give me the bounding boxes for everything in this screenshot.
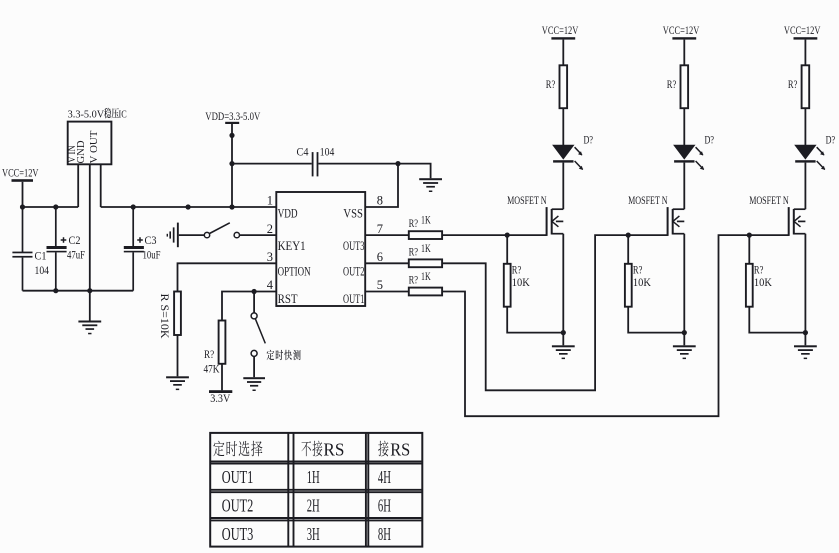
junction on VDD rail	[186, 204, 191, 209]
svg-text:OUT3: OUT3	[343, 238, 365, 253]
svg-text:R?: R?	[204, 347, 214, 361]
svg-text:MOSFET N: MOSFET N	[507, 195, 547, 207]
svg-text:4H: 4H	[378, 467, 391, 487]
ground (input filter)	[78, 321, 101, 335]
junction gate/pulldown (stage 1)	[505, 233, 510, 238]
wire source down (stage 3)	[804, 234, 806, 333]
wire pulldown to source (stage 1)	[507, 307, 563, 333]
svg-text:C2: C2	[69, 233, 81, 247]
timing option table frame	[210, 433, 422, 547]
svg-text:C1: C1	[35, 249, 47, 263]
svg-text:3.3V: 3.3V	[210, 393, 231, 405]
LED D? (stage 2)	[674, 145, 704, 170]
svg-text:2: 2	[267, 222, 273, 236]
svg-text:104: 104	[320, 145, 335, 159]
junction pin8 riser at C4 line	[395, 161, 400, 166]
svg-text:R?: R?	[754, 265, 764, 277]
svg-text:5: 5	[377, 278, 383, 292]
wire bus VDD rail to IC pin1	[101, 206, 277, 208]
svg-text:R S=10K: R S=10K	[158, 294, 172, 339]
wire LED to drain (stage 1)	[562, 163, 564, 210]
svg-text:OUT1: OUT1	[343, 291, 365, 306]
LED D? (stage 3)	[795, 145, 825, 170]
svg-text:C4: C4	[297, 145, 309, 159]
svg-text:VCC=12V: VCC=12V	[542, 25, 579, 37]
label regulator title (stabilizer)	[104, 108, 119, 119]
svg-text:3.3-5.0V: 3.3-5.0V	[68, 108, 105, 120]
svg-text:R?: R?	[409, 218, 419, 230]
wire R to LED (stage 1)	[562, 108, 564, 145]
svg-text:KEY1: KEY1	[278, 238, 306, 253]
svg-text:C3: C3	[145, 233, 157, 247]
resistor R? load (stage 2)	[681, 65, 689, 108]
svg-text:OUT2: OUT2	[222, 496, 254, 516]
svg-text:R?: R?	[633, 265, 643, 277]
svg-text:D?: D?	[705, 134, 715, 146]
svg-text:OUT2: OUT2	[343, 263, 365, 278]
power bar 3.3V	[209, 390, 232, 393]
svg-text:VDD: VDD	[278, 205, 298, 220]
wire R to LED (stage 2)	[683, 108, 685, 145]
wire U1 to R7	[365, 291, 409, 293]
junction VDD vertical on rail	[229, 204, 234, 209]
power bar VCC=12V (stage 3)	[794, 37, 818, 39]
junction source/ground (stage 2)	[682, 330, 687, 335]
table header (with RS)	[378, 441, 388, 457]
capacitor C3	[124, 207, 144, 291]
svg-text:8H: 8H	[378, 524, 391, 544]
wire source down (stage 2)	[683, 234, 685, 333]
timer IC U1 body	[276, 192, 365, 306]
junction VCC/C1	[20, 204, 25, 209]
junction source/ground (stage 1)	[561, 330, 566, 335]
svg-text:3H: 3H	[307, 524, 320, 544]
svg-text:R?: R?	[667, 79, 677, 91]
ground (C4/VSS)	[419, 178, 442, 192]
svg-text:R?: R?	[546, 79, 556, 91]
wire LED to drain (stage 2)	[683, 163, 685, 210]
resistor R? pulldown 10K (stage 3)	[746, 264, 753, 307]
svg-text:VDD=3.3-5.0V: VDD=3.3-5.0V	[205, 111, 261, 123]
wire VCC to R (stage 1)	[562, 40, 564, 66]
resistor RS (R S=10K)	[174, 292, 181, 336]
resistor R? load (stage 1)	[560, 65, 568, 108]
wire R to LED (stage 3)	[804, 108, 806, 145]
resistor R5 (1K)	[409, 231, 442, 239]
svg-text:MOSFET N: MOSFET N	[749, 195, 789, 207]
svg-text:47K: 47K	[204, 362, 220, 376]
svg-text:V OUT: V OUT	[89, 130, 100, 164]
wire VCC to R (stage 2)	[683, 40, 685, 66]
svg-text:47uF: 47uF	[67, 248, 85, 262]
switch S2 (timing quick test)	[251, 313, 265, 357]
wire U1 to R5	[365, 234, 409, 236]
wire source down (stage 1)	[562, 234, 564, 333]
svg-text:VSS: VSS	[343, 205, 363, 220]
svg-text:10K: 10K	[633, 277, 652, 289]
svg-text:4: 4	[267, 278, 274, 292]
transistor Q2 (N-MOSFET)	[668, 207, 685, 236]
svg-text:RS: RS	[390, 439, 410, 459]
power bar VDD	[225, 122, 239, 124]
wire to ground (stage 2)	[683, 333, 685, 346]
wire pin8 riser	[365, 164, 398, 207]
svg-text:1K: 1K	[421, 215, 431, 227]
wire gate junction down (stage 1)	[506, 235, 508, 264]
wire V OUT pin	[100, 164, 102, 207]
ground (stage 1)	[552, 345, 575, 359]
switch S1 (KEY1)	[204, 223, 239, 238]
wire ground rail (C1-C2-GND-C3)	[23, 290, 134, 292]
transistor Q3 (N-MOSFET)	[789, 207, 806, 236]
ground (RS)	[166, 376, 189, 390]
wire VDD to C4	[232, 163, 312, 165]
svg-text:1H: 1H	[307, 467, 320, 487]
power bar VCC=12V (stage 1)	[551, 37, 575, 39]
wire rail to ground	[89, 291, 91, 321]
wire test switch to ground	[253, 356, 255, 377]
label timing quick test	[267, 350, 301, 360]
wire RS to ground	[177, 335, 179, 376]
LED D? (stage 1)	[553, 145, 583, 170]
wire gate junction down (stage 2)	[627, 235, 629, 264]
svg-text:2H: 2H	[307, 496, 320, 516]
svg-text:10K: 10K	[512, 277, 531, 289]
svg-text:7: 7	[377, 222, 383, 236]
junction regulator GND on rail	[87, 288, 92, 293]
transistor Q1 (N-MOSFET)	[547, 207, 564, 236]
junction gate/pulldown (stage 3)	[747, 233, 752, 238]
resistor R? pulldown 10K (stage 2)	[625, 264, 632, 307]
power bar VCC=12V (stage 2)	[672, 37, 696, 39]
resistor R3 (47K)	[219, 321, 226, 364]
junction source/ground (stage 3)	[803, 330, 808, 335]
svg-text:6: 6	[377, 250, 383, 264]
svg-text:VCC=12V: VCC=12V	[784, 25, 821, 37]
svg-text:R?: R?	[409, 275, 419, 287]
junction C3 on VDD rail	[131, 204, 136, 209]
wire pulldown to source (stage 3)	[749, 307, 805, 333]
svg-text:IC: IC	[119, 108, 127, 120]
wire pulldown to source (stage 2)	[628, 307, 684, 333]
wire bus-left VCC rail	[23, 206, 79, 208]
svg-text:10K: 10K	[754, 277, 773, 289]
svg-text:8: 8	[377, 194, 383, 208]
resistor R7 (1K)	[409, 288, 442, 296]
junction C2 top	[53, 204, 58, 209]
junction C2 bottom	[53, 288, 58, 293]
wire U1 to R6	[365, 262, 409, 264]
wire to ground (stage 1)	[562, 333, 564, 346]
svg-text:6H: 6H	[378, 496, 391, 516]
wire VDD down	[231, 124, 233, 207]
capacitor C2	[47, 207, 67, 291]
wire OUT1 to gate Q3	[442, 235, 789, 416]
ground (stage 3)	[794, 345, 817, 359]
resistor R? load (stage 3)	[802, 65, 810, 108]
junction VDD at C4 line	[229, 161, 234, 166]
wire pin4 RST net	[222, 292, 276, 321]
wire OUT2 to gate Q2	[442, 235, 668, 390]
svg-text:D?: D?	[826, 134, 836, 146]
wire OUT3 to gate Q1	[442, 234, 546, 236]
svg-text:104: 104	[35, 263, 50, 277]
svg-text:RST: RST	[278, 291, 298, 306]
svg-text:MOSFET N: MOSFET N	[628, 195, 668, 207]
svg-text:1K: 1K	[421, 271, 431, 283]
ground (stage 2)	[673, 345, 696, 359]
wire gate junction down (stage 3)	[748, 235, 750, 264]
svg-text:R?: R?	[788, 79, 798, 91]
wire VCC to bus	[22, 182, 24, 207]
svg-text:3: 3	[267, 250, 273, 264]
svg-text:1K: 1K	[421, 243, 431, 255]
wire V IN pin	[77, 164, 79, 207]
svg-text:VCC=12V: VCC=12V	[663, 25, 700, 37]
wire switch to KEY1 pin2	[240, 234, 277, 236]
capacitor C1	[12, 207, 32, 291]
svg-text:OUT3: OUT3	[222, 524, 254, 544]
wire RST to test switch	[253, 292, 255, 313]
svg-text:VCC=12V: VCC=12V	[2, 168, 39, 180]
table header timing select	[213, 441, 262, 457]
wire VCC to R (stage 3)	[804, 40, 806, 66]
svg-text:RS: RS	[323, 439, 344, 459]
capacitor C4	[312, 152, 319, 176]
power bar VCC=12V (input)	[12, 179, 34, 182]
wire LED to drain (stage 3)	[804, 163, 806, 210]
ground (KEY1 switch, left-pointing)	[167, 223, 179, 248]
svg-text:R?: R?	[409, 246, 419, 258]
wire C4 line to ground	[398, 164, 431, 179]
junction VDD upper	[229, 133, 234, 138]
svg-text:GND: GND	[76, 141, 87, 164]
wire GND pin	[89, 164, 91, 290]
svg-text:OPTION: OPTION	[278, 263, 311, 278]
svg-text:D?: D?	[584, 134, 594, 146]
wire to ground (stage 3)	[804, 333, 806, 346]
svg-text:OUT1: OUT1	[222, 467, 254, 487]
wire 47K to 3.3V	[221, 364, 223, 391]
resistor R6 (1K)	[409, 259, 442, 267]
svg-text:1: 1	[267, 194, 273, 208]
wire C4 to VSS node	[318, 163, 398, 165]
regulator U2 body	[68, 122, 112, 165]
wire pin3 OPTION to RS	[178, 263, 277, 291]
resistor R? pulldown 10K (stage 1)	[504, 264, 511, 307]
svg-text:10uF: 10uF	[143, 248, 161, 262]
wire ground to switch KEY1	[179, 234, 205, 236]
ground (test switch)	[243, 377, 265, 391]
table header (without RS)	[301, 441, 322, 457]
junction RST switch branch	[252, 289, 257, 294]
junction gate/pulldown (stage 2)	[626, 233, 631, 238]
svg-text:R?: R?	[512, 265, 522, 277]
